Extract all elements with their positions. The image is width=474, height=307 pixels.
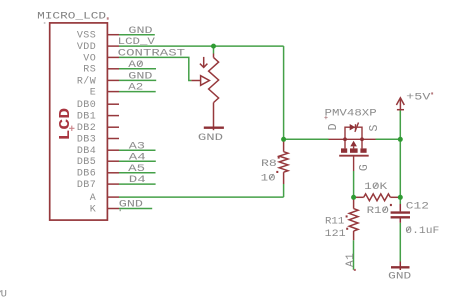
pin K of LCD (90, 204, 119, 215)
pin label S (368, 125, 381, 132)
net label A0 (128, 59, 143, 71)
ground symbol GND under C12 (388, 262, 411, 283)
pin label D (327, 123, 340, 130)
svg-text:A1: A1 (345, 253, 357, 267)
wire C12 bottom to GND (399, 223, 401, 262)
net label LCD_V (118, 36, 156, 48)
svg-text:K: K (90, 204, 96, 215)
label 10K (364, 181, 388, 193)
pin VSS of LCD (77, 31, 119, 42)
wire MOSFET gate down to R10/R11 node (353, 171, 355, 197)
net label GND (128, 25, 152, 37)
svg-text:DB5: DB5 (77, 157, 96, 168)
svg-text:LCD_V: LCD_V (118, 36, 156, 48)
svg-text:DB6: DB6 (77, 169, 96, 180)
label PMV48XP (324, 108, 376, 120)
wire net A2 from pin E (119, 91, 156, 93)
pin DB4 of LCD (77, 146, 119, 157)
pin DB5 of LCD (77, 157, 119, 168)
resistor R8 10 (279, 139, 288, 184)
value label LCD (vertical) (57, 108, 74, 141)
svg-text:DB2: DB2 (77, 123, 96, 134)
svg-text:D: D (327, 123, 340, 130)
svg-text:A5: A5 (128, 163, 145, 175)
wire R8 bottom to LCD A-pin wire (283, 184, 285, 197)
wire drain node to MOSFET D pin (284, 138, 329, 140)
wire net D4 from pin DB7 (119, 183, 156, 185)
origin cross of LCD symbol (69, 126, 74, 131)
svg-text:RS: RS (83, 65, 96, 76)
svg-text:DB1: DB1 (77, 112, 96, 123)
svg-text:GND: GND (388, 270, 411, 282)
wire net A3 from pin DB4 (119, 149, 156, 151)
wire +5V line down to C12 (399, 197, 401, 204)
svg-text:MICRO_LCD: MICRO_LCD (37, 11, 106, 23)
svg-text:VDD: VDD (77, 42, 96, 53)
junction S/+5V line (398, 137, 403, 142)
pin DB6 of LCD (77, 169, 119, 180)
wire net A from pin A (119, 196, 284, 198)
pin DB0 of LCD (77, 100, 119, 111)
svg-text:GND: GND (119, 199, 143, 211)
wire net CONTRAST from pin VO to trimmer wiper (119, 57, 191, 80)
net label A4 (129, 151, 146, 163)
wire net GND from pin R/W (119, 79, 156, 81)
label +5V (406, 92, 433, 104)
svg-text:R/W: R/W (77, 75, 96, 87)
net label A5 (128, 163, 145, 175)
wire net A5 from pin DB6 (119, 172, 156, 174)
pin DB1 of LCD (77, 112, 119, 123)
ground symbol GND under trimmer (198, 128, 224, 144)
pin DB7 of LCD (77, 180, 119, 191)
label origin tick at K GND (44, 22, 121, 211)
svg-text:A0: A0 (128, 59, 143, 71)
svg-text:10K: 10K (364, 181, 388, 193)
wire R11 bottom to net A1 (354, 240, 356, 271)
svg-text:S: S (368, 125, 381, 132)
wire net LCD_V vertical segment down to MOSFET drain node (283, 46, 285, 139)
component U1 MICRO_LCD box (50, 23, 108, 220)
junction drain node (281, 137, 286, 142)
label 0.1uF (405, 225, 439, 237)
net label D4 (129, 174, 146, 186)
wire net GND from pin VSS (119, 34, 155, 36)
junction gate/R10/R11 (351, 195, 356, 200)
svg-text:+5V: +5V (406, 92, 431, 104)
svg-text:DB7: DB7 (77, 180, 96, 191)
svg-text:G: G (358, 164, 371, 171)
net label A2 (128, 82, 143, 94)
svg-text:GND: GND (128, 25, 152, 37)
wire +5V vertical line (399, 110, 401, 197)
svg-text:A4: A4 (129, 151, 146, 163)
svg-text:121: 121 (325, 228, 346, 240)
net label A1 (vertical) (345, 253, 357, 267)
svg-text:R8: R8 (261, 158, 277, 170)
wire net A0 from pin RS (119, 68, 156, 70)
svg-text:C12: C12 (406, 200, 429, 212)
wire net A4 from pin DB5 (119, 160, 156, 162)
pin DB3 of LCD (77, 134, 119, 145)
svg-text:A2: A2 (128, 82, 143, 94)
svg-text:D4: D4 (129, 174, 146, 186)
transistor Q1 PMV48XP P-MOSFET (329, 123, 376, 172)
pin VDD of LCD (77, 42, 119, 53)
label MICRO_LCD (37, 11, 109, 23)
resistor R10 10K (354, 194, 401, 201)
wire MOSFET S pin to +5V line (376, 138, 401, 140)
pin VO of LCD (83, 53, 119, 64)
svg-text:GND: GND (128, 71, 152, 83)
svg-text:DB3: DB3 (77, 134, 96, 145)
label 10 (R8 value) (261, 171, 279, 185)
junction R10/C12 (398, 195, 403, 200)
svg-text:A: A (90, 193, 96, 204)
label R10 (367, 204, 392, 217)
resistor R11 121 (349, 197, 358, 240)
svg-text:DB0: DB0 (77, 100, 96, 111)
svg-text:VO: VO (83, 53, 96, 64)
wire trimmer top stub (213, 46, 215, 53)
svg-text:R10: R10 (367, 205, 389, 217)
svg-text:GND: GND (198, 132, 223, 144)
pin DB2 of LCD (77, 123, 119, 134)
pin E of LCD (90, 88, 119, 99)
svg-text:DB4: DB4 (77, 146, 96, 157)
pin A of LCD (90, 193, 119, 204)
svg-text:PMV48XP: PMV48XP (325, 108, 377, 120)
supply +5V arrow (396, 98, 404, 111)
capacitor C12 0.1uF (391, 204, 410, 223)
label C12 (406, 200, 429, 212)
wire net GND from pin K (119, 208, 152, 210)
net label GND (119, 199, 143, 211)
label R8 (261, 157, 280, 171)
pin label G (358, 164, 371, 171)
label 121 (325, 228, 349, 240)
partial text at left edge (cut off) (0, 289, 7, 301)
trimmer potentiometer (contrast) (191, 54, 218, 131)
wire net LCD_V from pin VDD (119, 45, 284, 47)
svg-text:VSS: VSS (77, 31, 96, 42)
net label CONTRAST (118, 48, 185, 60)
svg-text:R11: R11 (325, 215, 344, 227)
label R11 (325, 215, 348, 227)
net label A3 (129, 140, 145, 152)
net label GND (128, 71, 152, 83)
pin RS of LCD (83, 65, 119, 76)
pin R/W of LCD (77, 75, 119, 87)
slashed-zero marks (Eagle font) (138, 61, 410, 232)
svg-text:E: E (90, 88, 96, 99)
junction LCD_V/trimmer (211, 44, 216, 49)
svg-text:LCD: LCD (57, 108, 74, 141)
svg-text:U: U (1, 289, 7, 301)
